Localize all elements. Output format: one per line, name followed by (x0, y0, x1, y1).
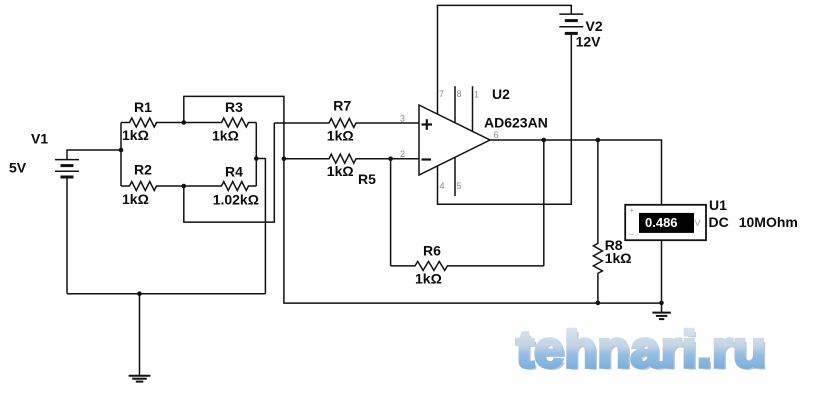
svg-text:DC10MOhm: DC10MOhm (709, 214, 798, 230)
junction node R8 bottom (596, 301, 601, 306)
wire R6 left leg (390, 159, 392, 266)
junction node R6 left tap (388, 156, 393, 161)
multimeter U1 box (625, 205, 706, 240)
junction node ground tap (137, 291, 142, 296)
svg-text:tehnari.ru: tehnari.ru (516, 321, 766, 379)
wire V1+ to bridge left (67, 150, 121, 160)
svg-text:3: 3 (400, 114, 405, 124)
junction node bridge left (119, 148, 124, 153)
junction node meter ground (659, 301, 664, 306)
op-amp plus input mark (422, 119, 433, 130)
junction node R5 tap (282, 156, 287, 161)
svg-text:R2: R2 (134, 162, 152, 178)
op-amp U2 triangle (419, 105, 490, 175)
junction node bridge bottom-mid (182, 184, 187, 189)
pin 5 stub (454, 157, 456, 196)
svg-text:2: 2 (400, 149, 405, 159)
wire bridge right node down to left ground rail (256, 159, 265, 294)
pin 1 stub (472, 86, 474, 131)
svg-text:U1: U1 (709, 197, 727, 213)
ground right (652, 313, 670, 320)
svg-text:5V: 5V (9, 160, 27, 176)
svg-text:1kΩ: 1kΩ (212, 128, 239, 144)
svg-text:12V: 12V (576, 34, 602, 50)
resistor R2 (121, 182, 184, 191)
svg-text:1kΩ: 1kΩ (122, 127, 149, 143)
svg-text:+: + (630, 206, 635, 215)
svg-text:1kΩ: 1kΩ (122, 191, 149, 207)
junction node feedback tap (542, 138, 547, 143)
junction node R8 top tap (596, 138, 601, 143)
battery V1 (55, 160, 79, 177)
resistor R6 (391, 261, 544, 270)
watermark tehnari.ru (516, 321, 769, 382)
svg-text:1kΩ: 1kΩ (327, 163, 354, 179)
svg-text:R4: R4 (225, 164, 243, 180)
wire bridge right vertical (255, 123, 257, 187)
svg-text:–: – (630, 230, 635, 239)
wire pin 7 up and V+ top rail to V2 (438, 5, 572, 114)
op-amp minus input mark (422, 158, 432, 160)
resistor R7 (274, 119, 419, 128)
wire V2- down and bottom rail to pin 4 (438, 33, 572, 204)
svg-text:6: 6 (494, 130, 499, 140)
svg-text:1: 1 (474, 90, 479, 100)
svg-text:1kΩ: 1kΩ (327, 128, 354, 144)
svg-text:R6: R6 (423, 243, 441, 259)
svg-text:R3: R3 (225, 99, 243, 115)
svg-text:V1: V1 (31, 131, 48, 147)
svg-text:R7: R7 (333, 98, 351, 114)
wire down to left ground (139, 294, 141, 375)
svg-text:R5: R5 (358, 171, 376, 187)
resistor R3 (184, 118, 256, 127)
pin 8 stub (454, 86, 456, 123)
junction node bridge top-mid (182, 120, 187, 125)
wire bridge top-mid over top rail down to R5 row (184, 96, 284, 158)
resistor R8 vertical (593, 140, 602, 303)
svg-text:1.02kΩ: 1.02kΩ (213, 192, 259, 208)
svg-text:AD623AN: AD623AN (484, 115, 548, 131)
svg-text:U2: U2 (492, 86, 510, 102)
multimeter display (639, 213, 694, 233)
svg-text:8: 8 (457, 89, 462, 99)
svg-text:1kΩ: 1kΩ (605, 250, 632, 266)
wire R6 right leg (543, 140, 545, 266)
resistor R1 (121, 118, 184, 127)
wire meter bottom down to ground (661, 240, 663, 312)
wire bridge left vertical (120, 123, 122, 187)
resistor R4 (184, 182, 256, 191)
ground left (129, 376, 151, 382)
svg-text:1kΩ: 1kΩ (415, 271, 442, 287)
svg-text:V2: V2 (586, 18, 603, 34)
resistor R5 (284, 154, 419, 163)
wire output pin 6 to meter (490, 140, 662, 205)
wire V1- down (66, 177, 68, 294)
svg-text:0.486: 0.486 (645, 215, 678, 230)
svg-text:5: 5 (457, 181, 462, 191)
wire bridge bottom-mid to R7 row (184, 123, 274, 222)
svg-text:4: 4 (440, 181, 445, 191)
junction node bridge right (254, 156, 259, 161)
wire down to right ground rail (284, 159, 662, 303)
wire left bottom rail (67, 293, 265, 295)
svg-text:V: V (695, 218, 701, 228)
svg-text:R1: R1 (134, 99, 152, 115)
battery V2 (559, 14, 583, 33)
svg-text:7: 7 (439, 89, 444, 99)
